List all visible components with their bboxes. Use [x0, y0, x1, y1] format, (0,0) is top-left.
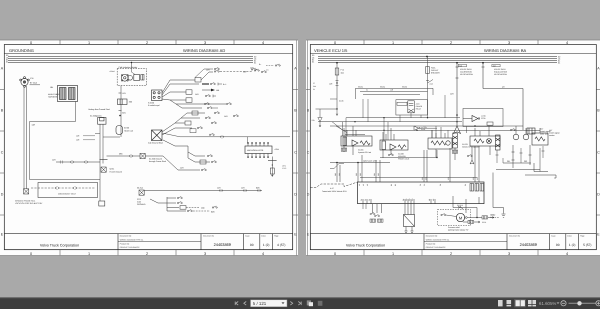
sensor C pins up	[432, 127, 445, 138]
riser into ABS pin	[247, 137, 249, 144]
rail junction dots	[354, 117, 475, 131]
motor M	[456, 213, 464, 221]
sensor A label	[358, 149, 371, 155]
svg-text:Cab inductive Heater: Cab inductive Heater	[119, 66, 138, 69]
wire 523 down	[522, 89, 524, 131]
rail y126	[330, 125, 523, 127]
svg-text:304: 304	[373, 173, 376, 176]
svg-text:CTRL: CTRL	[481, 117, 486, 120]
svg-text:D: D	[307, 193, 310, 197]
ground bars 504	[502, 214, 506, 217]
wire battery conductor 2	[25, 86, 27, 189]
ABS modulator block	[245, 146, 272, 154]
ground bolt 52.31A	[139, 190, 144, 195]
diag box bottom grounds	[405, 231, 414, 232]
fan wires lower tree down	[163, 140, 210, 170]
drawing frame left page	[4, 45, 292, 250]
relay box row1	[195, 78, 201, 83]
junction dot heater feed	[131, 62, 132, 63]
mesh mid rail 2	[363, 93, 420, 95]
svg-text:H2: H2	[432, 199, 435, 201]
bolt connector 29B	[140, 153, 145, 158]
wire hook row	[525, 175, 556, 178]
relay feed box	[397, 102, 407, 105]
sensor block B	[380, 140, 408, 150]
arrow symbol motor	[458, 206, 463, 209]
box t3	[192, 111, 198, 115]
fan diag 2	[336, 126, 347, 133]
svg-text:LOCATION FOR 2ND BATTERY: LOCATION FOR 2ND BATTERY	[15, 202, 43, 205]
fuse F7A drop	[336, 63, 338, 110]
dashes b3	[186, 207, 200, 209]
zoom dropdown caret	[557, 302, 560, 304]
bus labels right	[254, 55, 257, 64]
connector tick A14	[426, 80, 429, 82]
svg-text:Cab Ground Stud: Cab Ground Stud	[148, 142, 163, 145]
svg-text:A3: A3	[366, 184, 369, 186]
svg-text:Document title: Document title	[120, 235, 132, 238]
heater plug symbol	[121, 74, 132, 81]
svg-text:353: 353	[472, 177, 475, 180]
svg-text:SE036: SE036	[402, 86, 407, 89]
wire splice row2	[503, 162, 531, 164]
option box connector a	[56, 187, 59, 190]
connector column 495	[496, 135, 501, 150]
wire row1 cont	[201, 72, 213, 80]
svg-text:B1: B1	[390, 184, 393, 186]
branch drop diode	[319, 109, 321, 118]
wire ECU to motor cluster	[453, 204, 477, 218]
svg-text:DIAG: DIAG	[421, 128, 426, 131]
dash option divider	[310, 182, 357, 188]
stub wire 99	[330, 98, 337, 100]
trunk end lug	[99, 201, 105, 206]
two page view icon selected	[514, 299, 526, 307]
tick 483	[482, 66, 485, 68]
svg-text:WIRING DIAGRAM: AD: WIRING DIAGRAM: AD	[183, 48, 225, 53]
label rows 14R near trunk	[76, 135, 80, 142]
trunk tick	[95, 133, 100, 135]
svg-text:Product title: Product title	[120, 242, 130, 245]
tick 530	[529, 154, 532, 156]
cab ground stud connector block lower	[152, 130, 163, 141]
S-COB connector block upper	[152, 90, 163, 101]
contact t2	[205, 117, 210, 119]
svg-text:B2: B2	[394, 184, 397, 186]
bottom ruler ticks right	[364, 250, 538, 256]
svg-text:2: 2	[146, 252, 148, 256]
arrow head solid	[211, 89, 215, 92]
step wire mid	[534, 163, 548, 172]
svg-text:parking brake release "M": parking brake release "M"	[448, 229, 469, 232]
contact row2	[210, 83, 215, 85]
svg-text:31: 31	[313, 88, 315, 91]
motor terminal	[465, 217, 467, 219]
svg-text:A-37: A-37	[330, 187, 334, 190]
terminator row3b	[213, 95, 216, 98]
rail y121	[318, 121, 462, 123]
svg-text:305: 305	[377, 173, 380, 176]
contact feeder2	[221, 135, 224, 138]
svg-text:301: 301	[338, 173, 341, 176]
junction dot motor feed	[476, 217, 477, 218]
svg-text:Issue: Issue	[245, 235, 249, 238]
svg-text:B26: B26	[211, 210, 214, 213]
sensor A pins up	[344, 126, 356, 136]
svg-text:Tested with 100% Vehicle ECU: Tested with 100% Vehicle ECU	[322, 190, 347, 193]
heater resistor box	[134, 75, 140, 81]
bus labels left	[6, 54, 9, 63]
junction dot 457	[456, 114, 458, 116]
wire F7A tail	[336, 109, 338, 116]
stud box	[98, 118, 106, 125]
contact topmost right	[275, 64, 280, 66]
svg-text:1: 1	[88, 252, 90, 256]
left jog	[330, 164, 344, 169]
mesh top box	[356, 88, 434, 99]
feeder box	[190, 129, 196, 133]
svg-text:G2: G2	[405, 199, 408, 201]
bold dash row2	[202, 83, 209, 85]
svg-text:5 / 121: 5 / 121	[253, 301, 267, 306]
stub row5	[213, 107, 218, 109]
opamp small triangle	[414, 126, 420, 130]
sensor block D	[470, 136, 500, 146]
next page button	[290, 302, 292, 306]
svg-text:Index: Index	[567, 235, 571, 238]
bus junction dots	[336, 56, 484, 64]
svg-text:BREAKER: BREAKER	[431, 72, 440, 75]
connector pair long1	[220, 189, 223, 192]
svg-text:31.34B(point): 31.34B(point)	[90, 115, 102, 118]
svg-text:PRODUCT SCHEMATIC: PRODUCT SCHEMATIC	[426, 246, 447, 249]
svg-text:C: C	[294, 151, 297, 155]
big arrow down 457	[454, 126, 461, 134]
ABS pins top	[248, 143, 268, 146]
contact far right top	[261, 71, 266, 73]
tick bar above 52.31	[100, 159, 108, 161]
connector tick F7A	[336, 80, 339, 82]
svg-text:0: 0	[30, 252, 32, 256]
svg-text:A1: A1	[358, 184, 361, 186]
below hatch2	[378, 219, 384, 222]
diode symbol	[318, 118, 322, 122]
bottom ruler ticks	[60, 250, 234, 256]
opamp box	[463, 109, 503, 127]
single page view icon	[498, 300, 503, 306]
long wire end connector	[258, 189, 261, 192]
svg-text:5 (57): 5 (57)	[583, 243, 591, 247]
relay labels	[416, 102, 423, 110]
wire motor top	[465, 204, 467, 213]
wire into opamp	[466, 127, 468, 134]
arrow right1	[488, 217, 494, 219]
connector pair 2	[71, 161, 74, 164]
ground arrow 472	[470, 160, 474, 164]
last page button	[298, 302, 301, 306]
svg-text:Product title: Product title	[426, 242, 436, 245]
connector pair 3	[85, 161, 88, 164]
wire bus to heater	[131, 63, 133, 69]
opamp triangle	[472, 116, 478, 122]
power bus wires right	[318, 57, 557, 63]
svg-text:A2: A2	[362, 184, 365, 186]
wire heater to trunk	[103, 136, 120, 138]
contact row3b	[205, 95, 210, 97]
contact d3	[201, 169, 206, 171]
splice row2 labels	[507, 160, 527, 163]
wire heater down	[120, 86, 122, 138]
junction dot F7A	[336, 82, 337, 83]
svg-text:E1: E1	[464, 184, 467, 186]
svg-text:Document No: Document No	[203, 235, 214, 238]
branch junction dot	[336, 108, 337, 109]
svg-text:Speedo ECU ab: Speedo ECU ab	[358, 151, 371, 154]
svg-text:H1: H1	[428, 199, 431, 201]
left drops to ECU box	[337, 146, 479, 182]
layers icon	[307, 300, 313, 306]
svg-text:Heater coil: Heater coil	[124, 130, 134, 133]
input dropdown caret	[282, 302, 285, 304]
below hatch ends	[370, 219, 376, 222]
step path right	[493, 173, 504, 208]
dashes topmost	[266, 65, 274, 67]
svg-text:351: 351	[425, 177, 428, 180]
sheet ref marks	[283, 165, 287, 171]
contact row1	[214, 70, 219, 72]
contact inside motor box	[441, 214, 446, 216]
svg-text:A14: A14	[430, 83, 433, 86]
svg-text:3: 3	[508, 252, 510, 256]
svg-text:NO DEVIATION: NO DEVIATION	[460, 73, 473, 76]
arrow ABS end	[271, 175, 273, 177]
row divider ticks margins	[0, 90, 298, 216]
contact row5	[207, 107, 212, 109]
contact feeder1	[209, 133, 214, 135]
svg-text:D1: D1	[439, 184, 442, 186]
title block frame	[4, 234, 292, 250]
fuse F7A labels	[341, 69, 345, 75]
svg-text:303: 303	[359, 173, 362, 176]
svg-text:E1.5: E1.5	[283, 167, 287, 170]
sensor B pins up	[383, 128, 394, 140]
option box wire	[31, 187, 95, 189]
svg-text:1 (2): 1 (2)	[263, 243, 270, 247]
svg-text:Page: Page	[580, 235, 584, 238]
motor label	[448, 226, 469, 232]
connector block 300	[118, 99, 128, 105]
ABS pin squares bottom	[247, 157, 268, 158]
terminator row2	[218, 83, 222, 86]
arrow right2	[474, 221, 480, 223]
tick 30	[119, 110, 122, 112]
svg-text:354: 354	[476, 177, 479, 180]
dots ABS wire	[272, 164, 273, 165]
long wire chassis	[145, 190, 263, 192]
svg-text:184: 184	[50, 86, 53, 89]
junction dot	[119, 115, 121, 117]
battery label underline	[30, 84, 41, 86]
zoom slider track	[569, 302, 596, 304]
mesh rail labels	[358, 86, 407, 92]
svg-text:3: 3	[508, 41, 510, 45]
wire heater internal	[132, 69, 136, 75]
wire row1 ext	[220, 71, 252, 73]
mid drop 472	[471, 146, 473, 160]
sensor A riser 1	[342, 122, 344, 136]
harness labels	[48, 86, 60, 99]
option box connector b	[74, 187, 77, 190]
svg-text:GROUND: GROUND	[137, 203, 146, 206]
svg-text:F7: F7	[313, 82, 315, 85]
svg-text:stub: stub	[201, 207, 205, 210]
svg-text:F2: F2	[364, 199, 367, 201]
rail y117	[346, 117, 460, 119]
ticks 512	[512, 152, 515, 160]
connector pair long2	[244, 189, 247, 192]
splice drop 457	[456, 63, 458, 126]
box row3	[186, 90, 192, 95]
prev page button	[244, 302, 246, 306]
scroll view icon	[507, 300, 512, 306]
contact t1	[211, 122, 216, 124]
svg-text:4: 4	[566, 252, 568, 256]
fan wires lower tree up	[162, 113, 205, 135]
box row4	[186, 98, 192, 103]
svg-text:F1: F1	[360, 199, 363, 201]
svg-text:52.50.2: 52.50.2	[457, 204, 463, 207]
circuit breaker drop	[427, 57, 429, 100]
sensor B drops	[382, 150, 384, 158]
mid drop 497	[496, 150, 499, 163]
svg-text:WIRING DIAGRAM: BA: WIRING DIAGRAM: BA	[484, 48, 527, 53]
svg-text:306: 306	[459, 64, 462, 67]
ground label text	[15, 200, 43, 206]
svg-text:Page: Page	[274, 235, 278, 238]
svg-text:B+: B+	[259, 63, 261, 66]
mesh mid rail 1	[360, 90, 428, 92]
svg-text:G4: G4	[411, 199, 414, 201]
connector column 452	[453, 133, 458, 148]
mid drops with hatch 455	[454, 148, 456, 160]
svg-text:301: 301	[507, 160, 510, 163]
svg-text:WIRING DIAGRAM TYPE GL: WIRING DIAGRAM TYPE GL	[426, 238, 450, 241]
box t1	[185, 121, 191, 125]
svg-text:G1: G1	[402, 199, 405, 201]
dashes and label1	[495, 217, 500, 219]
contact t4	[197, 127, 202, 129]
svg-text:1: 1	[392, 41, 394, 45]
wire contact to motor	[446, 215, 456, 217]
svg-text:52.51: 52.51	[482, 221, 486, 224]
wires into diag box	[405, 204, 414, 231]
svg-text:E-vehicle spd: E-vehicle spd	[148, 104, 159, 107]
wire yel horizontal	[483, 88, 523, 90]
sensor D pins up	[475, 126, 489, 136]
drawing frame right page	[310, 45, 596, 250]
svg-text:0: 0	[30, 41, 32, 45]
svg-text:52.31A: 52.31A	[137, 187, 144, 190]
svg-text:Document No: Document No	[509, 235, 520, 238]
connector pair 1	[60, 161, 63, 164]
riser 540	[539, 148, 541, 172]
svg-text:300: 300	[129, 100, 132, 103]
svg-text:B26: B26	[256, 187, 259, 190]
step junction dot	[436, 157, 437, 158]
contact b1	[177, 197, 182, 199]
rotated labels risers right	[421, 177, 479, 180]
mid drop 530	[529, 145, 531, 165]
svg-text:PRODUCT SCHEMATIC: PRODUCT SCHEMATIC	[120, 246, 141, 249]
option label A-37	[322, 187, 347, 193]
diode out arrow	[319, 122, 321, 128]
sensor B label	[398, 153, 410, 161]
opamp small out wire	[420, 127, 437, 129]
ground drop 504	[503, 208, 505, 214]
connector comp ABS	[270, 168, 274, 174]
svg-text:350: 350	[421, 177, 424, 180]
title cell texts	[120, 235, 279, 250]
svg-text:Battery Box Ground Stud: Battery Box Ground Stud	[89, 108, 110, 111]
contact 470	[467, 155, 472, 157]
svg-text:302: 302	[524, 160, 527, 163]
zoom out icon	[561, 301, 566, 306]
title row separator right	[310, 53, 596, 55]
motor lower wire	[463, 221, 468, 223]
feeder wire from block	[162, 133, 196, 137]
vehicle ECU box	[358, 182, 485, 204]
svg-text:31: 31	[366, 89, 368, 92]
ABS pin squares top	[247, 142, 268, 143]
fuse F7A symbol	[335, 68, 339, 75]
below stubs inner	[363, 204, 366, 209]
contact top row	[214, 68, 219, 70]
diagonal connector box	[404, 215, 415, 227]
ECU pin labels top inside	[358, 184, 467, 186]
sensor C drop	[435, 149, 437, 158]
svg-text:2: 2	[146, 41, 148, 45]
sensor A riser 2	[345, 118, 347, 136]
contact b2	[177, 202, 182, 204]
svg-text:A2-B: A2-B	[275, 148, 280, 151]
svg-text:FRONT AXLE: FRONT AXLE	[398, 158, 410, 161]
svg-text:DISCONNECT ONLY: DISCONNECT ONLY	[58, 193, 77, 196]
heater element	[141, 75, 144, 81]
tick bar ABS	[268, 160, 277, 162]
mid drop 512	[512, 145, 514, 168]
thumbs icon	[318, 301, 323, 306]
wire splice row1	[330, 162, 390, 164]
breaker symbol	[426, 67, 430, 74]
battery center mark	[24, 81, 25, 82]
boiler switch component	[527, 128, 535, 134]
svg-text:C2: C2	[423, 184, 426, 186]
margin tag texts	[313, 82, 317, 91]
splice drop 483	[482, 63, 484, 89]
top ruler ticks	[60, 40, 234, 45]
mid drop 543	[542, 146, 545, 158]
sensor block A	[341, 136, 372, 146]
junction dots splice	[336, 162, 359, 164]
contact d1	[211, 161, 216, 163]
svg-text:B+ stud: B+ stud	[30, 82, 37, 85]
svg-text:SE031: SE031	[358, 86, 363, 89]
ECU pin labels bottom	[360, 199, 435, 201]
opamp labels	[481, 115, 486, 121]
mid drop 521	[520, 148, 523, 163]
power relay component	[408, 101, 415, 113]
splice drop labels 483	[494, 68, 508, 76]
